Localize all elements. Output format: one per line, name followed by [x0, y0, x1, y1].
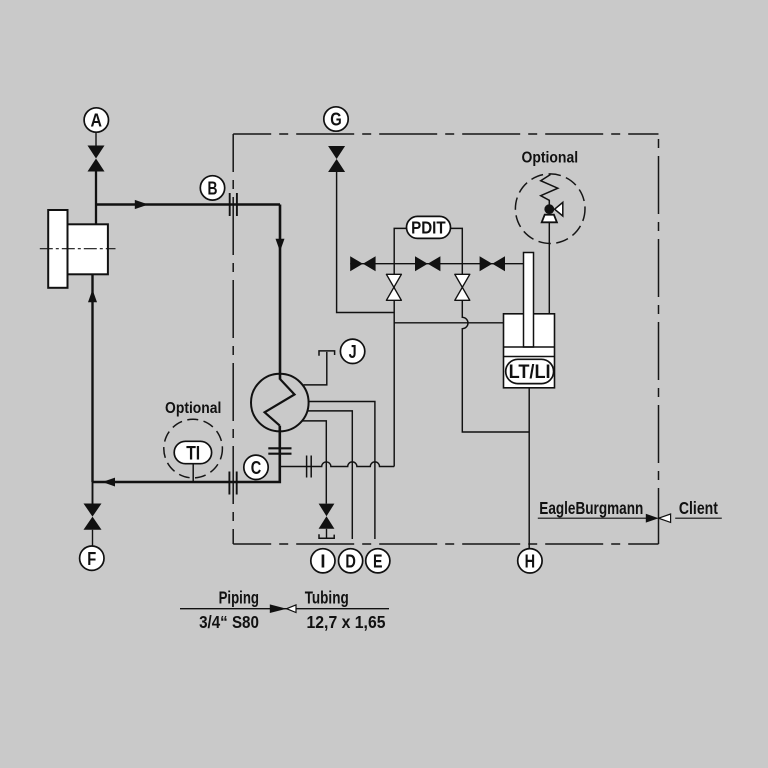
node D [339, 549, 363, 573]
wire seal top to junction and valve A [95, 172, 97, 225]
svg-text:F: F [87, 548, 96, 569]
instrument PDIT [407, 216, 451, 238]
J end cap [319, 351, 335, 356]
node J [340, 339, 364, 363]
wire manifold valve line [350, 263, 523, 265]
svg-text:12,7 x 1,65: 12,7 x 1,65 [307, 612, 386, 632]
svg-text:G: G [330, 109, 342, 130]
svg-text:A: A [91, 110, 103, 131]
alarm dashed circle [515, 174, 585, 244]
vessel body [504, 314, 555, 388]
union bars on tubing [306, 456, 308, 478]
node G [324, 107, 348, 131]
svg-text:I: I [320, 550, 325, 571]
connector C flange bars [228, 472, 230, 495]
wire valve F to circle F [92, 530, 94, 546]
wire alarm to vessel top [548, 209, 550, 314]
flange bars below heat exchanger [268, 447, 291, 449]
svg-text:B: B [208, 178, 218, 199]
instrument LT/LI [506, 359, 554, 383]
TI stem [192, 464, 194, 482]
valve A [88, 146, 105, 159]
valve V3 [480, 256, 493, 271]
wire D branch [307, 411, 352, 539]
wire seal bottom down to valve F (piping) [91, 274, 93, 482]
valve I [319, 504, 335, 517]
wire valve G down to PDIT left branch [337, 172, 395, 313]
svg-text:Tubing: Tubing [305, 588, 349, 608]
wire heat exchanger down and return line to seal (piping) [93, 426, 280, 482]
legend line [180, 608, 389, 610]
wire PDIT right branch with hop over vessel line [450, 228, 529, 432]
svg-text:TI: TI [186, 442, 200, 464]
valve V1 [350, 256, 363, 271]
svg-text:Optional: Optional [522, 150, 579, 167]
valve G [328, 146, 345, 159]
TI instrument bubble [174, 441, 211, 463]
svg-text:C: C [251, 457, 262, 478]
vessel internal lines [504, 346, 555, 348]
wire cooler outlet tubing with hops [281, 462, 394, 467]
node I [311, 549, 335, 573]
alarm ball [544, 204, 554, 214]
svg-text:3/4“ S80: 3/4“ S80 [199, 612, 259, 632]
I end cap [319, 534, 334, 538]
flow arrow down [276, 239, 285, 252]
wire E branch [308, 402, 375, 540]
flow arrow up into seal [88, 290, 97, 303]
seal centerline [40, 248, 116, 250]
svg-text:H: H [525, 550, 536, 571]
svg-text:Client: Client [679, 498, 718, 518]
alarm horn [555, 202, 563, 216]
valve F [84, 504, 102, 517]
alarm base [542, 215, 557, 223]
svg-text:E: E [373, 550, 383, 571]
seal unit housing [68, 224, 108, 274]
node A [84, 108, 108, 132]
svg-text:Piping: Piping [219, 588, 259, 608]
node B [200, 176, 224, 200]
node C [244, 455, 268, 479]
vessel rod [524, 253, 534, 348]
wire PDIT left branch [394, 228, 406, 466]
system boundary dashed box [233, 134, 658, 544]
svg-text:LT/LI: LT/LI [509, 362, 551, 383]
heat exchanger W1 [251, 374, 309, 432]
node F [80, 546, 104, 570]
TI dashed circle [164, 419, 223, 478]
wire valve I to cap [326, 529, 328, 538]
needle valve left [386, 274, 401, 300]
svg-text:J: J [349, 341, 357, 362]
svg-text:D: D [345, 550, 356, 571]
needle valve right [455, 274, 470, 300]
connector B flange bars [229, 193, 231, 216]
svg-text:PDIT: PDIT [411, 217, 446, 237]
wire vessel bottom to H [528, 388, 530, 549]
flow arrow right [135, 200, 149, 209]
wire valve A to circle A [95, 132, 97, 145]
flow arrow left on return line [102, 478, 115, 487]
wire I branch [302, 421, 326, 504]
valve V2 [415, 256, 428, 271]
svg-text:EagleBurgmann: EagleBurgmann [539, 498, 643, 518]
node E [366, 549, 390, 573]
seal unit flange plate [48, 210, 67, 288]
wire J branch [304, 352, 327, 385]
svg-text:Optional: Optional [165, 400, 221, 417]
wire down to heat exchanger (piping) [279, 205, 282, 380]
alarm spring [541, 175, 558, 205]
wire to vessel left side [394, 322, 503, 324]
node H [518, 549, 542, 573]
wire supply line to B (piping) [96, 203, 280, 206]
